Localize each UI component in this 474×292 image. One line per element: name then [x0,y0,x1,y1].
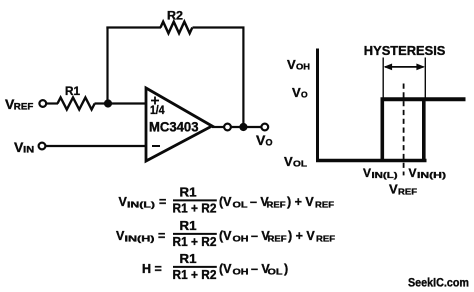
svg-text:IN(L): IN(L) [127,200,155,210]
svg-text:MC3403: MC3403 [149,120,199,135]
svg-text:OL: OL [268,267,283,277]
svg-text:R1 + R2: R1 + R2 [173,268,217,282]
svg-text:R1 + R2: R1 + R2 [173,235,217,249]
svg-text:OL: OL [293,159,307,169]
equation 1: VIN(L) [119,186,335,216]
label VREF axis [389,182,417,197]
curve right transition at VIN(H) [422,98,426,161]
junction node output [239,123,247,131]
wire VREF to R1 [46,102,58,104]
graph x-axis VOL level [316,159,427,162]
equation 3: H [142,252,288,282]
svg-text:(V: (V [219,262,232,276]
svg-text:IN: IN [23,145,34,155]
output circle [224,124,231,131]
label VREF [5,96,34,112]
wire op-amp output [212,126,224,128]
svg-text:) + V: ) + V [288,229,315,243]
hysteresis marker right [424,58,426,100]
graph y-axis [316,49,319,163]
op-amp U1 MC3403 [146,88,212,161]
svg-text:H =: H = [142,262,162,276]
resistor R2 [161,22,193,34]
svg-text:R1: R1 [180,252,197,266]
svg-text:): ) [284,262,288,276]
svg-text:V: V [284,154,293,169]
svg-text:R1: R1 [180,219,197,233]
label VO axis [292,85,308,100]
label VIN [14,139,34,155]
svg-text:REF: REF [14,102,34,112]
svg-text:O: O [266,138,273,148]
svg-text:HYSTERESIS: HYSTERESIS [364,43,446,58]
wire feedback left vertical [106,27,108,104]
svg-text:(V: (V [219,229,232,243]
svg-text:SeekIC.com: SeekIC.com [408,276,469,290]
label VO [256,132,273,148]
resistor R1 [58,98,95,110]
svg-text:V: V [389,182,398,197]
svg-text:=: = [158,229,165,243]
wire feedback right vertical [242,27,244,128]
curve VO high level [381,97,466,101]
svg-text:V: V [409,166,417,180]
svg-text:O: O [301,90,308,100]
terminal VIN [39,143,46,150]
svg-text:R1 + R2: R1 + R2 [173,202,217,216]
label VIN(H) [409,166,447,180]
hysteresis marker left [382,58,384,100]
svg-text:OH: OH [233,234,249,244]
wire R1 to op-amp [95,102,147,104]
svg-text:1/4: 1/4 [150,105,165,117]
svg-text:(V: (V [219,195,232,209]
label VOH [287,57,310,72]
svg-text:V: V [363,166,371,180]
svg-text:OL: OL [233,200,248,210]
svg-text:IN(H): IN(H) [417,170,446,180]
junction node A [104,99,112,107]
equation 2: VIN(H) [116,219,335,249]
svg-text:IN(L): IN(L) [372,170,398,180]
svg-text:REF: REF [268,234,287,244]
wire output to VO terminal [231,126,261,128]
svg-text:OH: OH [296,62,310,72]
label VIN(L) [363,166,398,180]
svg-text:IN(H): IN(H) [125,234,155,244]
hysteresis double arrow [384,64,425,71]
svg-text:V: V [287,57,296,72]
svg-text:R1: R1 [180,186,197,200]
wire top left to R2 [106,26,161,28]
curve left transition at VIN(L) [380,98,384,161]
svg-text:=: = [159,195,166,209]
svg-text:V: V [292,85,301,100]
svg-text:REF: REF [267,200,286,210]
wire VIN to op-amp [46,145,147,147]
svg-text:) + V: ) + V [287,195,314,209]
svg-text:R2: R2 [167,9,183,23]
svg-text:V: V [256,132,266,148]
label VOL [284,154,307,169]
svg-text:REF: REF [315,200,334,210]
terminal VO [261,124,268,131]
dashed line VREF [403,84,405,176]
svg-text:REF: REF [316,234,335,244]
terminal VREF [39,100,46,107]
svg-text:R1: R1 [65,84,80,98]
svg-text:REF: REF [398,187,417,197]
wire R2 to right vertical [193,26,245,28]
svg-text:OH: OH [233,267,249,277]
